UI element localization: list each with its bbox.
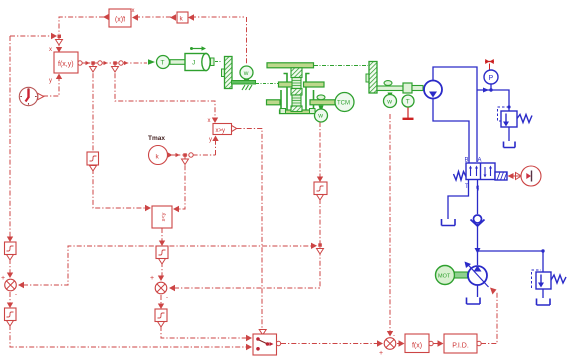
svg-text:-: - — [166, 295, 168, 301]
svg-text:A: A — [478, 158, 482, 164]
svg-text:T: T — [161, 60, 165, 67]
svg-text:x: x — [49, 47, 52, 53]
svg-text:Tmax: Tmax — [148, 135, 165, 142]
svg-text:f(x,y): f(x,y) — [58, 61, 74, 68]
svg-text:-: - — [15, 292, 17, 298]
svg-text:f(x): f(x) — [115, 17, 125, 24]
svg-text:T: T — [465, 184, 469, 190]
svg-text:q: q — [476, 185, 479, 191]
svg-text:+: + — [150, 275, 154, 282]
svg-text:P: P — [489, 75, 494, 82]
svg-text:P.I.D.: P.I.D. — [452, 343, 469, 350]
svg-text:+: + — [1, 275, 5, 282]
svg-text:MOT: MOT — [438, 274, 451, 280]
svg-text:x>y: x>y — [216, 128, 226, 134]
svg-text:w: w — [243, 70, 249, 77]
svg-text:y: y — [49, 78, 52, 84]
svg-text:x<y: x<y — [161, 212, 167, 221]
svg-text:-: - — [393, 333, 395, 339]
svg-text:y: y — [209, 137, 212, 143]
svg-text:J: J — [192, 60, 195, 67]
svg-text:+: + — [379, 350, 383, 357]
svg-text:w: w — [317, 113, 323, 120]
svg-text:x: x — [132, 8, 135, 14]
svg-text:f(x): f(x) — [412, 343, 422, 350]
svg-text:x: x — [208, 118, 211, 124]
svg-text:TCM: TCM — [337, 101, 350, 107]
svg-text:w: w — [386, 99, 392, 106]
svg-text:T: T — [406, 99, 410, 106]
svg-text:B: B — [465, 158, 469, 164]
